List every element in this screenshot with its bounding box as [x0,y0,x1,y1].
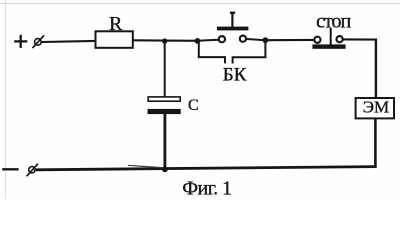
minus terminal circle [29,167,35,173]
node: capacitor junction on bottom rail [162,166,168,172]
wire: plus terminal to resistor [42,41,96,42]
pushbutton BK lower bracket left [199,43,225,63]
capacitor C bottom plate [148,109,181,114]
wire: stub node to BK left contact [197,40,218,41]
plus terminal slash [32,35,44,48]
wire: capacitor top lead [164,41,166,97]
pushbutton stop left contact circle [314,37,320,43]
wire: stop switch to right corner [343,38,377,40]
wire: BK to stop switch [265,39,314,41]
scan frame left edge [5,0,7,199]
pushbutton stop bridge bar [312,44,345,48]
wire: capacitor bottom lead [163,114,166,171]
pushbutton BK bridge bar [217,27,249,31]
pushbutton BK actuator cap [230,12,235,14]
wire: EM box to bottom rail [374,118,377,167]
pushbutton BK lower bracket right [233,43,266,64]
svg-text:Фиг. 1: Фиг. 1 [182,178,231,200]
pushbutton BK left contact circle [219,36,225,42]
svg-text:R: R [109,13,123,35]
svg-text:C: C [188,97,199,114]
node BK left [195,38,201,44]
wire: stub BK right contact to node [246,39,265,40]
node: capacitor junction on top rail [162,38,167,43]
node BK right [263,37,269,43]
pushbutton stop right contact circle [337,36,343,42]
bottom rail wire [36,167,377,170]
resistor R box [96,31,133,48]
svg-text:БК: БК [223,64,247,85]
plus terminal sign [14,35,27,48]
pushbutton BK right contact circle [240,36,246,42]
wire: right vertical down to EM coil [375,39,377,99]
minus terminal sign [2,168,18,170]
svg-text:стоп: стоп [316,11,351,33]
plus terminal circle [35,39,42,46]
capacitor C top plate [148,97,180,101]
scan artifact line above bottom rail [128,165,161,167]
minus terminal slash [27,164,38,177]
pushbutton BK actuator stem [231,13,233,27]
pushbutton stop actuator stem [330,28,332,46]
svg-text:ЭМ: ЭМ [363,97,389,116]
electromagnet EM box [356,98,394,118]
scan frame top edge [0,3,400,5]
wire: resistor to BK left node [133,39,198,42]
